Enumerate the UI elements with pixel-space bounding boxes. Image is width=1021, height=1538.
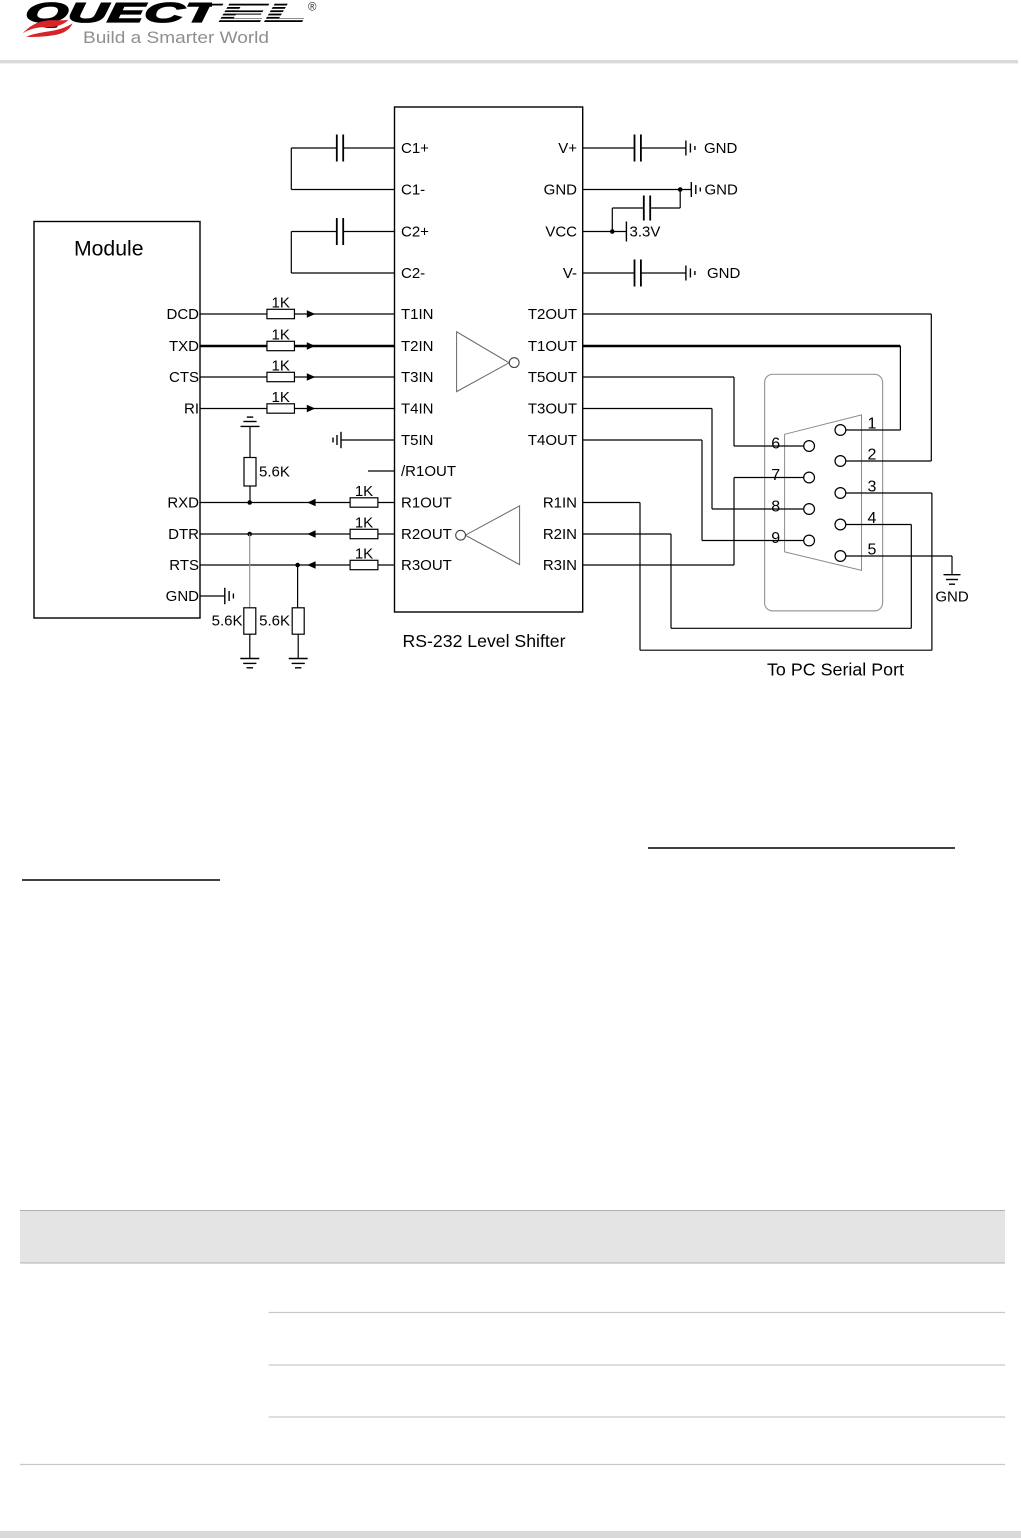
svg-text:1K: 1K — [272, 327, 290, 344]
svg-text:T4IN: T4IN — [401, 401, 434, 418]
svg-text:7: 7 — [771, 467, 780, 484]
svg-text:T1IN: T1IN — [401, 306, 434, 323]
svg-text:5.6K: 5.6K — [212, 613, 243, 630]
svg-text:GND: GND — [707, 265, 741, 282]
svg-text:R3IN: R3IN — [543, 557, 577, 574]
svg-text:6: 6 — [771, 436, 780, 453]
svg-text:R2OUT: R2OUT — [401, 526, 452, 543]
svg-text:9: 9 — [771, 530, 780, 547]
svg-text:1K: 1K — [272, 295, 290, 312]
svg-text:VCC: VCC — [545, 224, 577, 241]
svg-text:3: 3 — [868, 479, 877, 496]
svg-text:T3OUT: T3OUT — [528, 401, 577, 418]
svg-text:GND: GND — [544, 182, 578, 199]
svg-text:R1OUT: R1OUT — [401, 495, 452, 512]
svg-text:TXD: TXD — [169, 338, 199, 355]
svg-text:/R1OUT: /R1OUT — [401, 463, 456, 480]
svg-text:2: 2 — [868, 447, 877, 464]
svg-text:1K: 1K — [355, 483, 373, 500]
svg-text:GND: GND — [935, 589, 969, 606]
svg-text:5.6K: 5.6K — [259, 613, 290, 630]
svg-text:T3IN: T3IN — [401, 369, 434, 386]
svg-text:4: 4 — [868, 510, 877, 527]
svg-text:R3OUT: R3OUT — [401, 557, 452, 574]
svg-text:8: 8 — [771, 499, 780, 516]
svg-text:EL: EL — [218, 0, 308, 28]
svg-text:T5IN: T5IN — [401, 432, 434, 449]
svg-text:R2IN: R2IN — [543, 526, 577, 543]
svg-text:RI: RI — [184, 401, 199, 418]
svg-text:CTS: CTS — [169, 369, 199, 386]
svg-text:1: 1 — [868, 416, 877, 433]
svg-text:C2+: C2+ — [401, 224, 429, 241]
svg-text:To PC Serial Port: To PC Serial Port — [767, 660, 904, 680]
svg-text:GND: GND — [704, 140, 738, 157]
svg-text:5: 5 — [868, 542, 877, 559]
svg-text:1K: 1K — [355, 546, 373, 563]
svg-text:T2OUT: T2OUT — [528, 306, 577, 323]
svg-text:RXD: RXD — [167, 495, 199, 512]
svg-text:RS-232 Level Shifter: RS-232 Level Shifter — [403, 631, 566, 651]
svg-text:T2IN: T2IN — [401, 338, 434, 355]
svg-text:C1+: C1+ — [401, 140, 429, 157]
svg-text:DTR: DTR — [168, 526, 199, 543]
svg-text:GND: GND — [705, 182, 739, 199]
svg-text:C2-: C2- — [401, 265, 425, 282]
svg-text:5.6K: 5.6K — [259, 464, 290, 481]
svg-text:R1IN: R1IN — [543, 495, 577, 512]
svg-text:1K: 1K — [272, 389, 290, 406]
svg-text:T4OUT: T4OUT — [528, 432, 577, 449]
svg-text:3.3V: 3.3V — [630, 224, 661, 241]
svg-text:V-: V- — [563, 265, 577, 282]
svg-text:1K: 1K — [272, 358, 290, 375]
svg-text:V+: V+ — [558, 140, 577, 157]
svg-text:Module: Module — [74, 238, 144, 261]
svg-text:GND: GND — [166, 588, 200, 605]
svg-text:®: ® — [308, 2, 317, 14]
svg-text:C1-: C1- — [401, 182, 425, 199]
svg-text:DCD: DCD — [167, 306, 200, 323]
svg-text:RTS: RTS — [169, 557, 199, 574]
svg-text:T5OUT: T5OUT — [528, 369, 577, 386]
svg-text:T1OUT: T1OUT — [528, 338, 577, 355]
svg-text:1K: 1K — [355, 515, 373, 532]
svg-text:Build a Smarter World: Build a Smarter World — [83, 29, 269, 47]
